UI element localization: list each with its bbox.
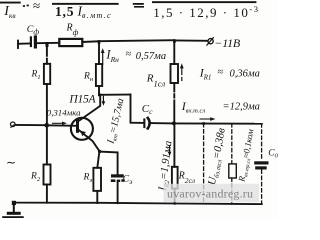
input current arrow: [200, 118, 211, 120]
svg-text:Rвх.тр.сл≈0,1ком: Rвх.тр.сл≈0,1ком: [236, 128, 257, 184]
bottom rail: [14, 203, 262, 205]
current arrow IR1: [181, 67, 183, 75]
svg-text:Rф: Rф: [66, 23, 79, 37]
transistor emitter lead: [79, 130, 99, 151]
node junction C (top of R1сл): [173, 39, 176, 42]
wire base node down to R2: [46, 127, 48, 165]
wire emitter node to Сэ: [100, 152, 118, 175]
input signal terminal (left): [11, 122, 16, 127]
svg-text:Rэ: Rэ: [83, 173, 93, 185]
node base junction: [45, 123, 49, 127]
ground bar 2: [2, 216, 24, 218]
formula fraction bar middle: [52, 3, 119, 5]
resistor R1: [44, 64, 50, 84]
wire rail C to supply terminal: [175, 39, 208, 41]
output rail to equivalent circuit: [175, 122, 262, 124]
svg-text:≈: ≈: [126, 49, 132, 60]
svg-text:Iкт=15,7ма: Iкт=15,7ма: [105, 97, 127, 146]
capacitor Сф plates: [30, 36, 32, 47]
wire Rн down to collector node: [98, 86, 100, 95]
transistor Q1 П15А circle: [71, 118, 93, 140]
svg-text:Uбэ.тсл=0,38в: Uбэ.тсл=0,38в: [206, 127, 229, 186]
dashed line Rвх branch (lower): [231, 178, 233, 204]
ground node square: [12, 201, 16, 205]
wire R1сл down to output node: [173, 83, 175, 92]
dashed line Rвх branch (upper): [231, 124, 233, 164]
wire Сэ to bottom rail: [117, 182, 119, 203]
node collector junction: [98, 94, 101, 97]
dashed line Uбэ branch: [203, 124, 205, 204]
dashed line С0 branch (lower): [261, 170, 263, 204]
watermark background: [164, 184, 260, 202]
node output junction: [172, 121, 176, 125]
svg-text:0,314мка: 0,314мка: [47, 107, 81, 117]
node tick dashed branch: [202, 122, 205, 125]
formula dots: [23, 5, 25, 7]
svg-text:П15А: П15А: [68, 92, 96, 105]
current arrow IR2: [169, 146, 171, 153]
formula equals sign: [133, 3, 144, 5]
wire junction A down to R1: [46, 43, 48, 56]
wire base node to transistor base: [49, 124, 77, 127]
wire Сс to output node: [151, 122, 174, 124]
svg-text:1,5: 1,5: [55, 4, 74, 19]
resistor R2: [44, 165, 51, 185]
node emitter junction: [98, 150, 101, 153]
svg-text:Iкв: Iкв: [3, 4, 16, 20]
svg-text:Сф: Сф: [27, 24, 40, 37]
node junction B (top of Rн): [98, 40, 101, 44]
svg-text:Iв.мт.с: Iв.мт.с: [77, 4, 112, 20]
emitter PNP arrowhead: [80, 131, 86, 137]
wire junction C down to R1сл: [173, 40, 175, 64]
wire output node down to R2сл: [173, 123, 175, 166]
capacitor Сэ top plate: [111, 174, 124, 177]
svg-text:0,57ма: 0,57ма: [136, 51, 166, 62]
capacitor С0 plates: [254, 161, 268, 164]
collector current arrow Iкт: [102, 96, 104, 102]
resistor Rэ: [93, 168, 101, 191]
ground stub: [13, 205, 15, 212]
svg-text:uvarov-andreg.ru: uvarov-andreg.ru: [167, 187, 253, 201]
current arrow IRн: [102, 52, 104, 65]
resistor R1сл: [171, 64, 179, 83]
resistor Rф: [59, 39, 82, 46]
resistor Rн: [96, 64, 102, 86]
svg-text:−11В: −11В: [214, 36, 241, 50]
svg-text:≈: ≈: [218, 67, 224, 78]
wire collector tap to Сс: [99, 95, 143, 123]
svg-text:С0: С0: [268, 148, 278, 159]
svg-text:=12,9ма: =12,9ма: [223, 101, 260, 112]
svg-text:R1: R1: [31, 70, 41, 82]
dashed line С0 branch (upper): [261, 124, 263, 161]
wire Rэ to bottom rail: [96, 191, 98, 203]
formula fraction bar over Iкв: [0, 2, 21, 4]
node junction A (top of R1): [46, 42, 49, 47]
wire R1 down to base node: [46, 84, 48, 125]
svg-text:IR1: IR1: [199, 65, 212, 81]
capacitor Сэ curved plate: [111, 179, 116, 182]
svg-text:Сс: Сс: [142, 103, 153, 116]
resistor Rвх.тр.сл (equivalent): [229, 164, 237, 178]
wire input to base node: [15, 124, 45, 126]
svg-text:Rн: Rн: [83, 72, 93, 84]
svg-text:R2сл: R2сл: [178, 171, 195, 186]
resistor R2сл: [172, 167, 178, 189]
wire Сф to Rф: [37, 42, 59, 44]
wire emitter node to Rэ: [97, 152, 99, 168]
svg-text:IRн: IRн: [105, 48, 119, 64]
wire rail B to C: [100, 40, 174, 41]
transistor base bar: [76, 119, 79, 132]
formula fraction bar right: [152, 1, 256, 3]
capacitor Сс plates: [143, 118, 145, 128]
svg-text:R2: R2: [30, 172, 41, 184]
wire junction B down to Rн: [98, 41, 100, 64]
wire terminal to Сф: [18, 43, 30, 45]
svg-text:Сэ: Сэ: [123, 175, 133, 187]
wire R2сл to bottom rail: [174, 189, 176, 204]
wire Rф to Rн junction: [82, 40, 99, 43]
transistor collector lead: [79, 95, 100, 121]
svg-text:∼: ∼: [6, 156, 16, 170]
svg-text:1,5 · 12,9 · 10-3: 1,5 · 12,9 · 10-3: [153, 4, 259, 20]
svg-text:0,36ма: 0,36ма: [230, 69, 260, 80]
svg-text:Iвх.т.сл: Iвх.т.сл: [181, 99, 206, 115]
svg-text:≈: ≈: [33, 0, 40, 13]
base current arrow: [53, 122, 63, 124]
svg-text:R1сл: R1сл: [146, 72, 166, 88]
ground bar 1: [7, 212, 21, 215]
input terminal (top left): [17, 41, 19, 48]
supply terminal -11В: [208, 39, 213, 44]
wire R2 to bottom rail: [46, 185, 48, 203]
